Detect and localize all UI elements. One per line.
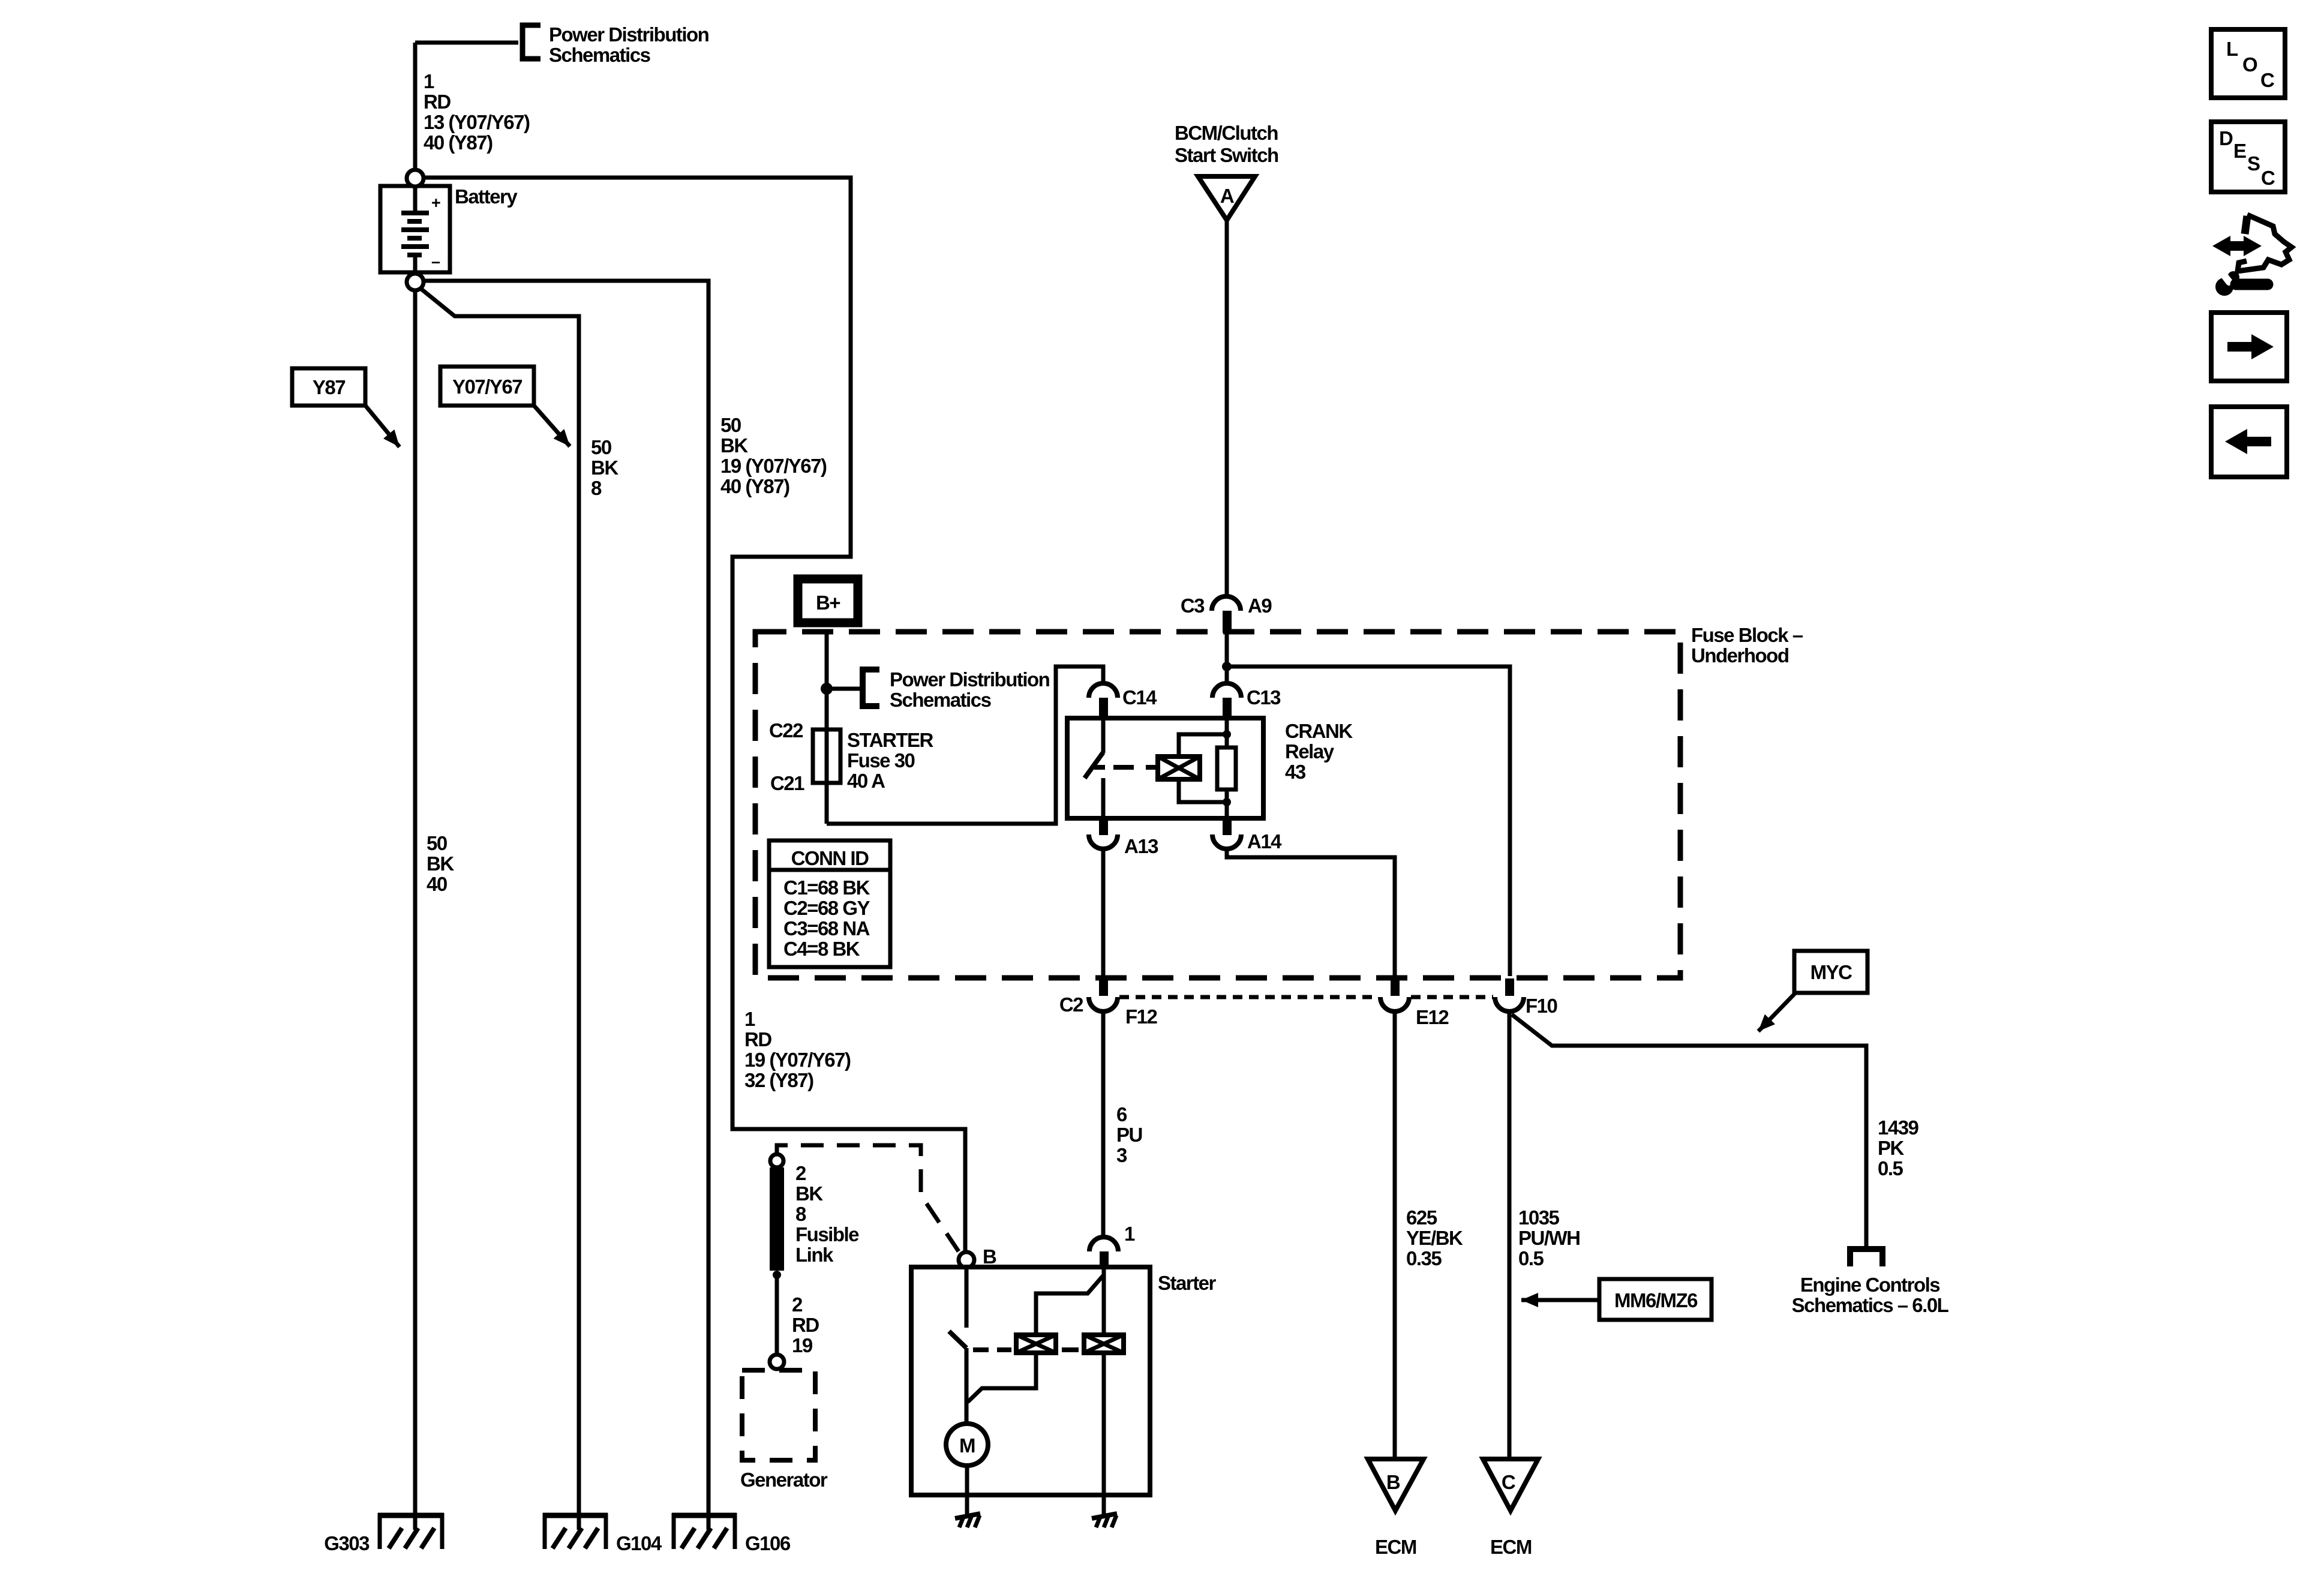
svg-text:2: 2 (795, 1162, 806, 1184)
node Y07/Y67 callout box (440, 367, 534, 406)
svg-text:RD: RD (424, 91, 451, 113)
svg-text:C4=8 BK: C4=8 BK (783, 938, 860, 960)
svg-text:0.5: 0.5 (1878, 1157, 1903, 1179)
svg-text:Fuse 30: Fuse 30 (847, 749, 915, 772)
wire junction to power-distribution bracket (827, 687, 860, 691)
svg-text:STARTER: STARTER (847, 729, 934, 751)
svg-text:32 (Y87): 32 (Y87) (744, 1069, 813, 1091)
connector A13 (1099, 818, 1108, 835)
wire C13 through resistor to A14 (1225, 718, 1229, 749)
svg-text:C21: C21 (770, 772, 804, 794)
connector E12 (1391, 978, 1400, 996)
svg-text:A14: A14 (1247, 830, 1282, 852)
generator Generator dashed box (742, 1370, 815, 1460)
wire A9 to C13 and F10 branch (1225, 633, 1229, 683)
icon back-arrow box (2211, 407, 2287, 477)
connector 1 (starter S terminal) (1089, 1237, 1118, 1251)
svg-text:A: A (1220, 185, 1234, 207)
starter mechanical link dashed (973, 1347, 989, 1352)
wire MM6/MZ6 arrow (1521, 1298, 1599, 1302)
motor M starter motor (946, 1424, 988, 1466)
svg-text:2: 2 (792, 1293, 803, 1316)
wire battery negative to G104 (420, 288, 579, 1530)
node battery positive terminal (407, 170, 424, 187)
bracket Power Distribution Schematics (top) (523, 25, 541, 59)
connector F10 (1505, 978, 1514, 996)
node Y87 callout box (292, 368, 365, 406)
icon LOC box (2211, 29, 2285, 98)
svg-text:BK: BK (795, 1182, 823, 1205)
relay K43 mechanical link dashed (1113, 765, 1158, 770)
starter Starter box (911, 1267, 1150, 1495)
junction relay coil top dot (1223, 730, 1231, 739)
wire pull-in winding to motor (968, 1353, 1036, 1402)
junction fusible link splice dot (773, 1271, 781, 1279)
node A off-page triangle (BCM/Clutch Start Switch) (1198, 176, 1255, 220)
starter solenoid switch (965, 1268, 969, 1328)
svg-text:Engine Controls: Engine Controls (1800, 1274, 1939, 1296)
svg-text:–: – (431, 253, 440, 271)
connector C3 A9 (1212, 596, 1241, 611)
svg-text:40 A: 40 A (847, 770, 885, 792)
svg-text:13 (Y07/Y67): 13 (Y07/Y67) (424, 111, 530, 133)
svg-text:PU/WH: PU/WH (1518, 1227, 1580, 1249)
svg-text:RD: RD (744, 1028, 771, 1050)
svg-text:B+: B+ (816, 592, 840, 614)
wire B+ to fuse 30 (825, 630, 829, 824)
svg-text:Battery: Battery (455, 185, 518, 208)
wire starter terminal 1 to coils (1102, 1268, 1106, 1335)
wire battery negative to G106 (424, 281, 708, 1530)
svg-text:E12: E12 (1416, 1006, 1449, 1028)
bracket Engine Controls Schematics (1850, 1249, 1882, 1266)
icon part-and-wrench (2212, 236, 2262, 256)
svg-text:Schematics: Schematics (549, 44, 650, 66)
ground G303 (378, 1513, 444, 1518)
svg-text:G303: G303 (324, 1532, 370, 1554)
svg-text:43: 43 (1285, 761, 1306, 783)
svg-text:F10: F10 (1526, 995, 1557, 1017)
svg-text:6: 6 (1116, 1103, 1127, 1125)
svg-text:BK: BK (720, 434, 748, 457)
wire battery positive feed to B+ (424, 178, 965, 1252)
starter pull-in winding (1016, 1335, 1056, 1353)
svg-text:B: B (983, 1245, 996, 1268)
node B+ power tap box (798, 579, 858, 623)
svg-text:0.35: 0.35 (1406, 1247, 1442, 1269)
svg-text:40: 40 (427, 873, 447, 895)
svg-text:B: B (1386, 1471, 1400, 1493)
wire hold-in winding to ground (1102, 1353, 1106, 1514)
svg-text:A9: A9 (1248, 595, 1272, 617)
connector C2 F12 (1099, 978, 1108, 996)
node MYC callout box (1794, 951, 1867, 993)
svg-text:19 (Y07/Y67): 19 (Y07/Y67) (720, 455, 827, 477)
svg-text:40 (Y87): 40 (Y87) (424, 131, 493, 154)
wire C2/F12 to starter terminal 1 (1101, 1011, 1106, 1238)
svg-text:C: C (2261, 167, 2275, 189)
svg-text:C: C (1502, 1471, 1515, 1493)
wire generator dashed branch to starter B (777, 1145, 959, 1251)
svg-text:MM6/MZ6: MM6/MZ6 (1614, 1289, 1698, 1311)
wire A14 to E12 (1227, 849, 1395, 976)
generator terminal circle (770, 1355, 784, 1369)
svg-text:M: M (959, 1434, 975, 1457)
fusible link 2 BK 8 (770, 1167, 784, 1271)
svg-text:PU: PU (1116, 1124, 1142, 1146)
node MM6/MZ6 callout box (1599, 1279, 1712, 1320)
svg-text:1439: 1439 (1878, 1116, 1919, 1139)
connector A14 (1223, 818, 1232, 835)
svg-text:50: 50 (427, 832, 447, 854)
svg-text:19: 19 (792, 1334, 813, 1356)
node ECM C off-page triangle (1483, 1459, 1538, 1511)
svg-text:ECM: ECM (1490, 1536, 1532, 1558)
svg-text:8: 8 (591, 477, 602, 499)
svg-text:1: 1 (744, 1008, 755, 1030)
wire junction to F10 (1227, 667, 1510, 976)
junction dot A9/F10 (1222, 662, 1232, 671)
svg-text:C3=68 NA: C3=68 NA (783, 917, 870, 939)
svg-text:1: 1 (424, 70, 434, 92)
svg-text:L: L (2226, 38, 2238, 60)
relay K43 CRANK Relay box (1067, 718, 1263, 818)
svg-text:C2: C2 (1059, 993, 1083, 1016)
node battery negative terminal (407, 274, 424, 290)
fusible link terminal circle (770, 1154, 783, 1167)
svg-text:CRANK: CRANK (1285, 720, 1353, 742)
wire battery negative to G303 (413, 290, 418, 1530)
wire E12 to ECM B (1393, 1012, 1397, 1459)
svg-text:19 (Y07/Y67): 19 (Y07/Y67) (744, 1049, 851, 1071)
svg-text:40 (Y87): 40 (Y87) (720, 475, 789, 497)
svg-text:D: D (2219, 127, 2233, 149)
wire F10 branch to engine controls (1512, 1014, 1866, 1246)
svg-text:Starter: Starter (1158, 1272, 1217, 1294)
svg-text:Y07/Y67: Y07/Y67 (452, 376, 522, 398)
ground starter motor case (955, 1514, 980, 1518)
svg-text:Generator: Generator (740, 1469, 828, 1491)
svg-text:Start Switch: Start Switch (1175, 144, 1278, 166)
svg-text:RD: RD (792, 1314, 819, 1336)
wire BCM A to connector C3/A9 (1225, 220, 1229, 597)
resistor relay K43 internal (1217, 748, 1236, 789)
svg-text:Fuse Block –: Fuse Block – (1691, 624, 1803, 646)
svg-text:Y87: Y87 (313, 376, 345, 398)
svg-text:1: 1 (1124, 1223, 1135, 1245)
svg-text:BCM/Clutch: BCM/Clutch (1175, 122, 1278, 144)
svg-text:Relay: Relay (1285, 740, 1335, 763)
relay K43 switch contact (1101, 718, 1106, 753)
svg-text:E: E (2233, 140, 2246, 162)
ground G104 (543, 1513, 608, 1518)
svg-text:Fusible: Fusible (795, 1223, 859, 1245)
svg-text:O: O (2242, 53, 2257, 76)
wire F10 to ECM C (1508, 1012, 1512, 1459)
ground G106 (672, 1513, 737, 1518)
svg-text:BK: BK (427, 852, 454, 875)
fuse F30 STARTER Fuse 30 40 A (813, 730, 840, 783)
wire Y07/Y67 arrow (534, 406, 570, 446)
svg-text:G106: G106 (745, 1532, 791, 1554)
svg-text:C13: C13 (1247, 686, 1281, 709)
wire fusible link to generator (775, 1275, 779, 1355)
svg-text:C3: C3 (1181, 595, 1205, 617)
svg-text:PK: PK (1878, 1137, 1905, 1159)
junction relay coil bottom dot (1223, 798, 1231, 806)
svg-text:C2=68 GY: C2=68 GY (783, 897, 870, 919)
svg-text:CONN ID: CONN ID (791, 847, 869, 869)
svg-text:C1=68 BK: C1=68 BK (783, 876, 870, 899)
svg-text:Schematics: Schematics (890, 689, 991, 711)
svg-text:YE/BK: YE/BK (1406, 1227, 1463, 1249)
icon next-arrow box (2211, 313, 2287, 381)
svg-text:Underhood: Underhood (1691, 644, 1788, 667)
svg-text:C22: C22 (769, 719, 803, 742)
wire MYC arrow (1758, 993, 1795, 1031)
node ECM B off-page triangle (1368, 1459, 1424, 1511)
bracket Power Distribution Schematics (fuse block) (863, 670, 879, 706)
wire connector row C2 dotted (1119, 995, 1379, 999)
svg-text:0.5: 0.5 (1518, 1247, 1544, 1269)
wire A13 to C2 (1101, 849, 1106, 976)
svg-text:S: S (2247, 152, 2260, 175)
svg-text:Power Distribution: Power Distribution (890, 668, 1050, 691)
starter hold-in winding (1084, 1335, 1124, 1353)
wire relay coil top tap (1179, 734, 1227, 757)
starter terminal B circle (959, 1252, 974, 1268)
battery Battery (380, 186, 450, 272)
fuse block underhood dashed outline (755, 632, 1680, 978)
svg-text:BK: BK (591, 457, 618, 479)
svg-text:3: 3 (1116, 1144, 1127, 1166)
svg-text:50: 50 (720, 414, 741, 436)
svg-text:C: C (2260, 69, 2274, 91)
ground starter solenoid case (1092, 1514, 1117, 1518)
connector C13 (1212, 683, 1241, 698)
svg-text:C14: C14 (1122, 686, 1157, 709)
CONN ID table (769, 840, 890, 967)
wire fuse 30 output to crank relay C14 (827, 667, 1103, 824)
svg-text:MYC: MYC (1810, 961, 1852, 983)
svg-text:1035: 1035 (1518, 1206, 1560, 1229)
junction B+ tap dot (821, 683, 833, 695)
svg-text:A13: A13 (1124, 835, 1158, 857)
wire battery positive to power-distribution bracket (413, 43, 418, 170)
relay K43 coil (1158, 757, 1200, 779)
wire Y87 arrow (365, 406, 400, 447)
wire motor to ground (965, 1466, 969, 1514)
svg-text:625: 625 (1406, 1206, 1437, 1229)
svg-text:ECM: ECM (1375, 1536, 1416, 1558)
svg-text:Schematics – 6.0L: Schematics – 6.0L (1792, 1294, 1949, 1316)
svg-text:8: 8 (795, 1203, 806, 1225)
wire relay coil bottom tap (1179, 779, 1227, 802)
svg-text:Power Distribution: Power Distribution (549, 23, 709, 46)
svg-text:50: 50 (591, 436, 611, 458)
svg-text:Link: Link (795, 1244, 834, 1266)
connector C14 (1089, 683, 1118, 698)
svg-text:F12: F12 (1125, 1005, 1158, 1028)
svg-text:G104: G104 (616, 1532, 662, 1554)
svg-text:+: + (431, 194, 440, 212)
icon DESC box (2211, 122, 2285, 192)
